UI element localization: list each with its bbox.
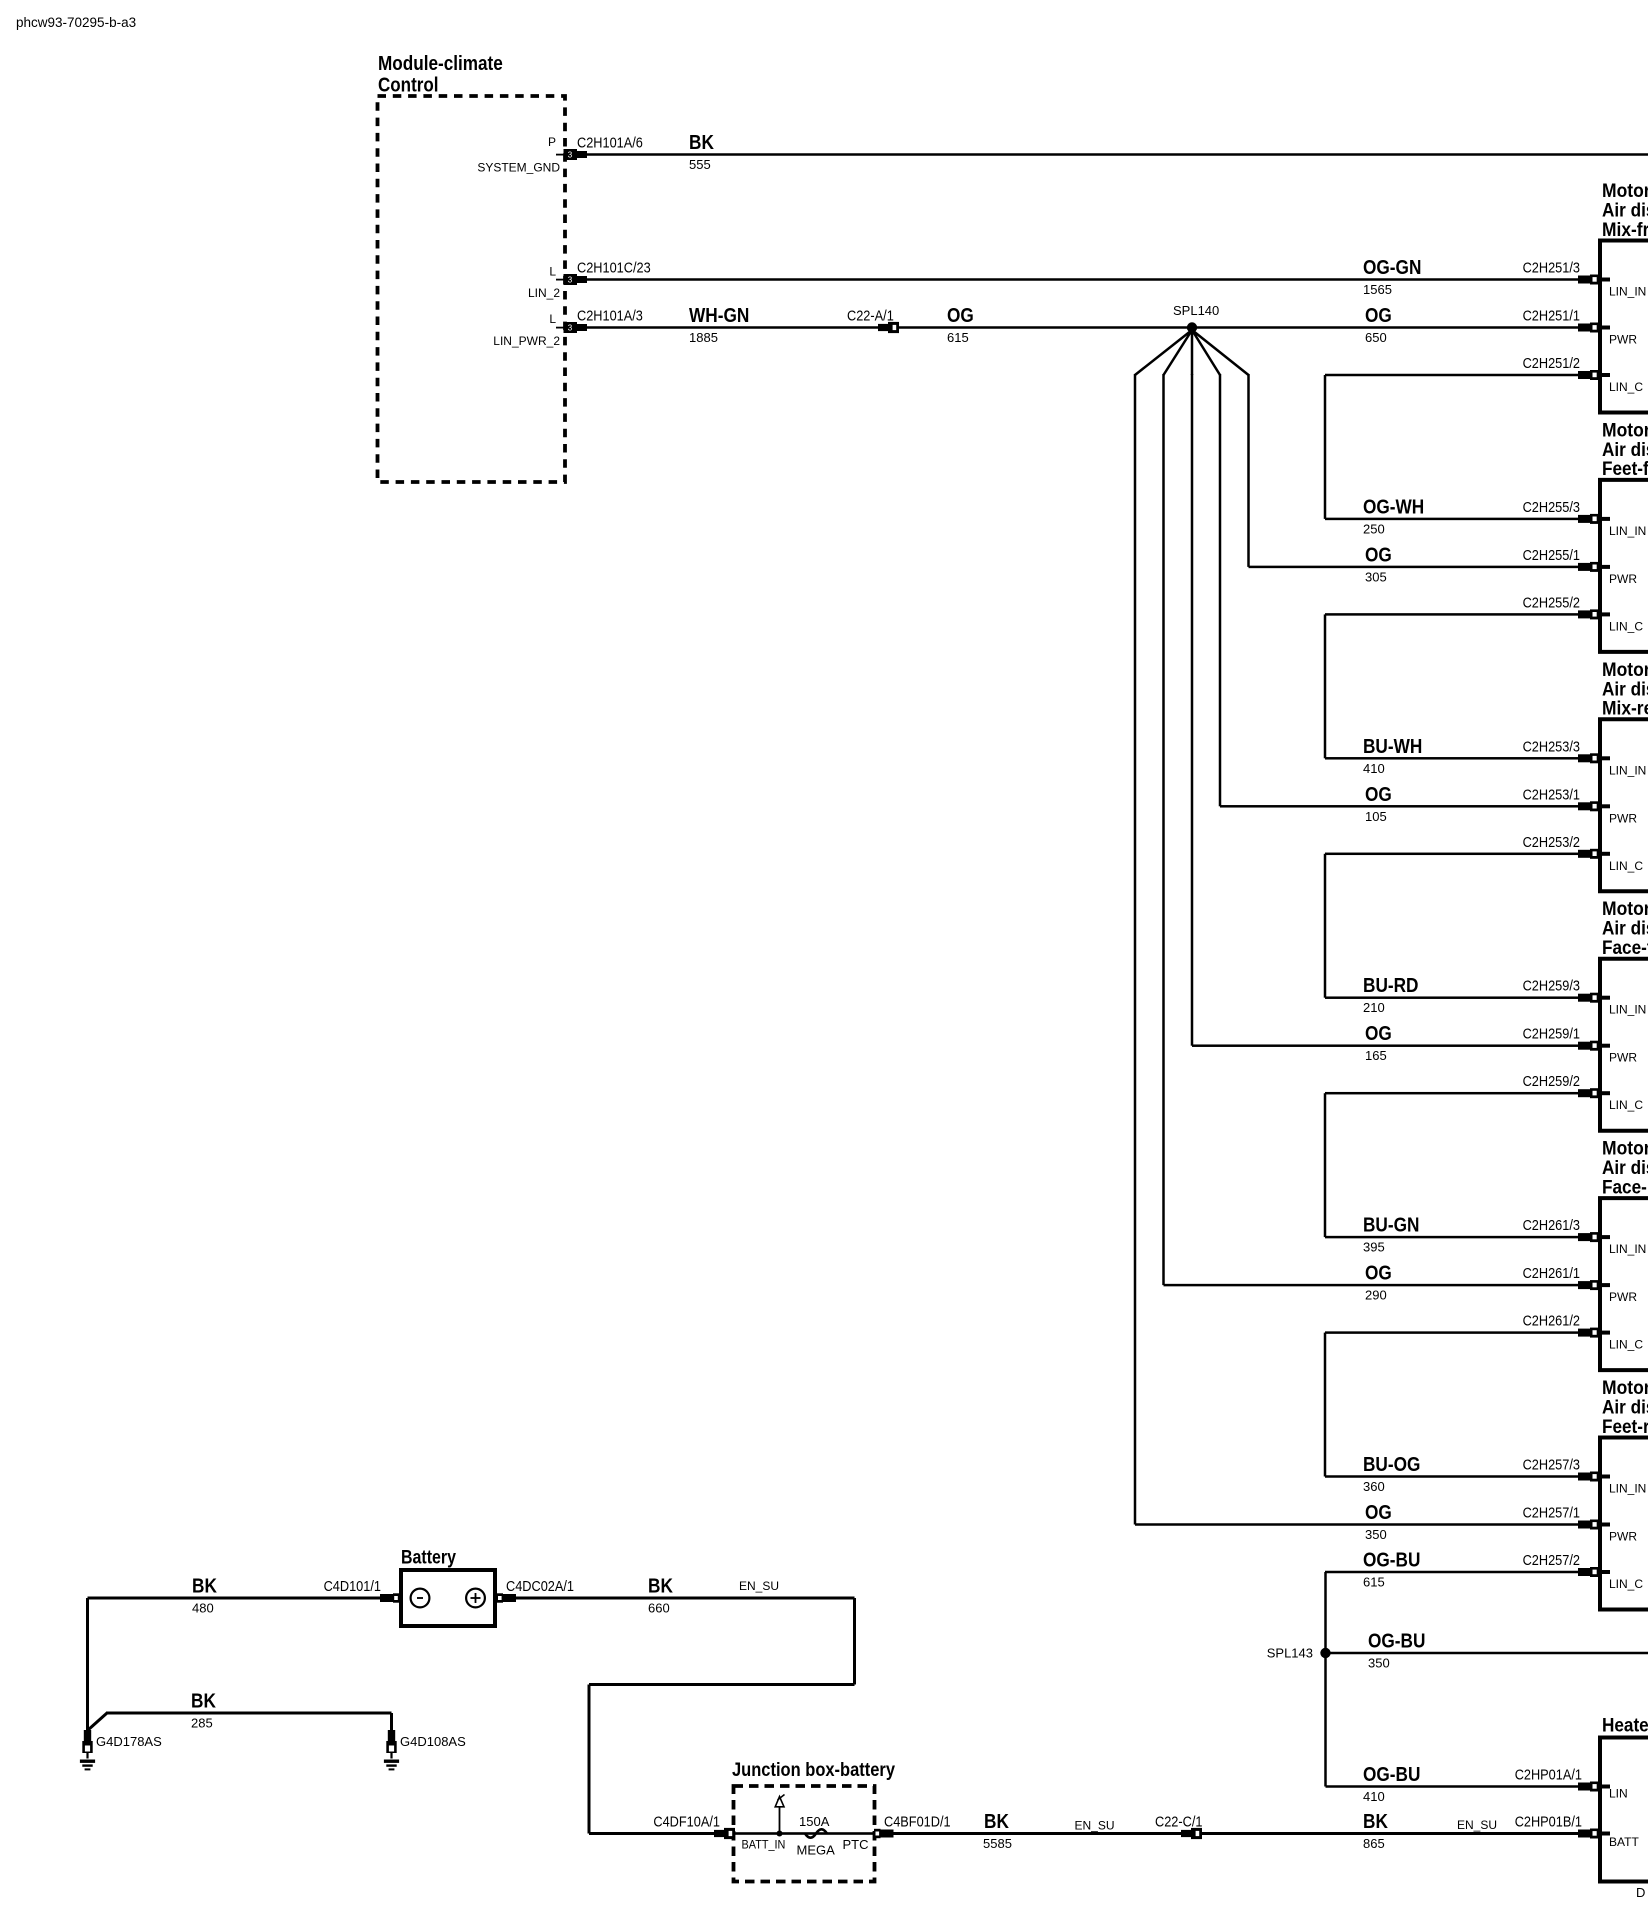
svg-text:LIN_2: LIN_2 — [528, 286, 560, 300]
svg-text:LIN_IN: LIN_IN — [1609, 1003, 1646, 1017]
module-climate-control box — [378, 96, 566, 482]
feed arrow inside junction box — [779, 1807, 781, 1834]
svg-text:BK: BK — [191, 1690, 216, 1713]
wire OG 650 (SPL140 to motor1 PWR) — [1192, 326, 1578, 329]
wire to C2H251/2 LIN_C — [1325, 374, 1578, 377]
wire BK 660 (battery to junction box) — [516, 1597, 855, 1600]
svg-text:LIN_PWR_2: LIN_PWR_2 — [493, 334, 560, 348]
wire OG-BU 350 (SPL143 to right edge) — [1326, 1652, 1648, 1655]
svg-text:Junction box-battery: Junction box-battery — [732, 1759, 895, 1781]
svg-text:PWR: PWR — [1609, 811, 1637, 825]
svg-text:C2H101C/23: C2H101C/23 — [577, 260, 651, 277]
svg-text:C2H257/3: C2H257/3 — [1523, 1457, 1580, 1474]
svg-text:410: 410 — [1363, 761, 1385, 776]
svg-text:C2H253/1: C2H253/1 — [1523, 786, 1580, 803]
motor 1 box — [1600, 241, 1648, 413]
svg-text:LIN_C: LIN_C — [1609, 859, 1643, 873]
pin C2H251/1 PWR — [1578, 324, 1590, 332]
wire BK 5585 (junction box to C22-C/1) — [894, 1832, 1182, 1835]
wire OG vertical from SPL140 to motor5 PWR — [1162, 374, 1165, 1285]
battery box — [401, 1570, 495, 1626]
wire to C2H253/2 LIN_C — [1325, 853, 1578, 856]
svg-text:BK: BK — [1363, 1810, 1388, 1833]
pin C2H261/2 LIN_C — [1578, 1329, 1590, 1337]
svg-text:350: 350 — [1365, 1527, 1387, 1542]
svg-text:OG: OG — [1365, 1262, 1392, 1285]
wire OG 105 to C2H253/1 PWR — [1220, 805, 1578, 808]
wire OG vertical from SPL140 to motor3 PWR — [1219, 374, 1222, 806]
pin C2H261/1 PWR — [1578, 1281, 1590, 1289]
svg-text:OG-GN: OG-GN — [1363, 256, 1421, 279]
wire OG-WH 250 to C2H255/3 LIN_IN — [1325, 518, 1578, 521]
svg-text:Control: Control — [378, 74, 439, 97]
svg-text:C2H101A/3: C2H101A/3 — [577, 308, 643, 325]
svg-text:OG: OG — [947, 304, 974, 327]
pin C2H259/2 LIN_C — [1578, 1089, 1590, 1097]
svg-text:C4BF01D/1: C4BF01D/1 — [884, 1814, 951, 1831]
svg-text:G4D178AS: G4D178AS — [96, 1734, 162, 1749]
svg-text:PWR: PWR — [1609, 572, 1637, 586]
svg-text:C2H251/2: C2H251/2 — [1523, 355, 1580, 372]
pin C2H255/1 PWR — [1578, 563, 1590, 571]
svg-text:PWR: PWR — [1609, 333, 1637, 347]
svg-text:C2H261/1: C2H261/1 — [1523, 1265, 1580, 1282]
motor 2 box — [1600, 480, 1648, 652]
wire OG 290 to C2H261/1 PWR — [1164, 1284, 1579, 1287]
svg-text:Mix-front: Mix-front — [1602, 219, 1648, 241]
svg-text:165: 165 — [1365, 1048, 1387, 1063]
pin C2H253/3 LIN_IN — [1578, 754, 1590, 762]
wire OG-BU 410 (SPL143 to heater C2HP01A/1) — [1326, 1785, 1579, 1788]
svg-text:LIN_C: LIN_C — [1609, 1098, 1643, 1112]
svg-text:C2H253/2: C2H253/2 — [1523, 834, 1580, 851]
svg-text:3: 3 — [568, 151, 573, 160]
svg-text:350: 350 — [1368, 1656, 1390, 1671]
svg-text:C2H251/3: C2H251/3 — [1523, 260, 1580, 277]
svg-text:C4DF10A/1: C4DF10A/1 — [653, 1814, 720, 1831]
svg-text:OG: OG — [1365, 783, 1392, 806]
svg-text:BK: BK — [689, 131, 714, 154]
svg-text:C2HP01A/1: C2HP01A/1 — [1515, 1767, 1582, 1784]
ground G4D178AS — [84, 1730, 91, 1741]
svg-text:OG-BU: OG-BU — [1368, 1630, 1425, 1653]
svg-text:C4DC02A/1: C4DC02A/1 — [506, 1578, 574, 1595]
svg-text:EN_SU: EN_SU — [739, 1579, 779, 1593]
motor 4 box — [1600, 959, 1648, 1131]
pin C2H257/3 LIN_IN — [1578, 1473, 1590, 1481]
wire OG 615 (C22-A/1 to SPL140) — [899, 326, 1192, 329]
svg-text:555: 555 — [689, 157, 711, 172]
wire OG 165 to C2H259/1 PWR — [1192, 1044, 1578, 1047]
svg-text:SYSTEM_GND: SYSTEM_GND — [477, 161, 560, 175]
SPL140 fan diagonals — [1135, 330, 1249, 375]
wire OG 350 to C2H257/1 PWR — [1135, 1523, 1578, 1526]
svg-text:PWR: PWR — [1609, 1051, 1637, 1065]
heater box — [1600, 1738, 1648, 1882]
junction node BATT_IN branch — [777, 1831, 783, 1837]
junction box-battery box — [734, 1786, 875, 1882]
svg-text:OG: OG — [1365, 1501, 1392, 1524]
svg-text:C2H251/1: C2H251/1 — [1523, 308, 1580, 325]
svg-text:C2H257/2: C2H257/2 — [1523, 1552, 1580, 1569]
svg-text:C2H101A/6: C2H101A/6 — [577, 135, 643, 152]
svg-text:BU-RD: BU-RD — [1363, 974, 1419, 997]
svg-text:C2HP01B/1: C2HP01B/1 — [1515, 1814, 1582, 1831]
wire OG-GN 1565 to C2H251/3 LIN_IN — [587, 278, 1578, 281]
svg-text:615: 615 — [947, 330, 969, 345]
motor 3 box — [1600, 719, 1648, 891]
wire motor6 LIN_C down to SPL143 — [1324, 1572, 1327, 1653]
svg-text:LIN_IN: LIN_IN — [1609, 285, 1646, 299]
svg-text:C2H253/3: C2H253/3 — [1523, 738, 1580, 755]
svg-text:305: 305 — [1365, 569, 1387, 584]
svg-text:Module-climate: Module-climate — [378, 52, 503, 75]
wire daisy-chain motor4 LIN_C to motor5 LIN_IN — [1324, 1093, 1327, 1237]
svg-text:360: 360 — [1363, 1479, 1385, 1494]
wire to C2H255/2 LIN_C — [1325, 613, 1578, 616]
svg-text:Heater: Heater — [1602, 1715, 1648, 1737]
svg-text:Feet-front: Feet-front — [1602, 458, 1648, 480]
battery negative terminal — [411, 1589, 430, 1608]
svg-text:OG: OG — [1365, 304, 1392, 327]
svg-text:BATT: BATT — [1609, 1835, 1639, 1849]
svg-text:OG: OG — [1365, 543, 1392, 566]
svg-text:615: 615 — [1363, 1575, 1385, 1590]
wire BATT_IN inside junction box — [735, 1832, 874, 1835]
wire OG vertical from SPL140 to motor6 PWR — [1134, 374, 1137, 1525]
svg-text:OG-WH: OG-WH — [1363, 495, 1424, 518]
svg-text:1885: 1885 — [689, 330, 718, 345]
wire BU-RD 210 to C2H259/3 LIN_IN — [1325, 996, 1578, 999]
svg-text:PWR: PWR — [1609, 1290, 1637, 1304]
wire to C2H257/2 LIN_C — [1325, 1571, 1578, 1574]
wire BU-OG 360 to C2H257/3 LIN_IN — [1325, 1475, 1578, 1478]
pin C2H257/2 LIN_C — [1578, 1568, 1590, 1576]
ground G4D108AS — [388, 1730, 395, 1741]
wire BK 555 (SYSTEM_GND to right edge) — [587, 153, 1648, 156]
svg-text:290: 290 — [1365, 1288, 1387, 1303]
svg-text:C2H257/1: C2H257/1 — [1523, 1505, 1580, 1522]
svg-text:C2H259/1: C2H259/1 — [1523, 1026, 1580, 1043]
svg-text:BK: BK — [192, 1575, 217, 1598]
svg-text:SPL140: SPL140 — [1173, 303, 1219, 318]
svg-text:BK: BK — [984, 1810, 1009, 1833]
svg-text:LIN_C: LIN_C — [1609, 619, 1643, 633]
wire BK 865 (C22-C/1 to heater BATT) — [1202, 1832, 1578, 1835]
pin C2H261/3 LIN_IN — [1578, 1233, 1590, 1241]
pin C2H259/3 LIN_IN — [1578, 994, 1590, 1002]
svg-text:LIN_C: LIN_C — [1609, 380, 1643, 394]
pin C2H251/2 LIN_C — [1578, 371, 1590, 379]
svg-text:C2H259/2: C2H259/2 — [1523, 1073, 1580, 1090]
svg-text:Face-front: Face-front — [1602, 937, 1648, 959]
pin C2H251/3 LIN_IN — [1578, 276, 1590, 284]
svg-text:C22-A/1: C22-A/1 — [847, 308, 894, 325]
svg-text:BATT_IN: BATT_IN — [742, 1838, 786, 1852]
pin C2H257/1 PWR — [1578, 1521, 1590, 1529]
svg-text:SPL143: SPL143 — [1267, 1646, 1313, 1661]
svg-text:phcw93-70295-b-a3: phcw93-70295-b-a3 — [16, 15, 136, 30]
wire BU-WH 410 to C2H253/3 LIN_IN — [1325, 757, 1578, 760]
svg-text:LIN_C: LIN_C — [1609, 1577, 1643, 1591]
svg-text:285: 285 — [191, 1716, 213, 1731]
svg-text:BU-OG: BU-OG — [1363, 1453, 1420, 1476]
svg-text:250: 250 — [1363, 521, 1385, 536]
svg-text:G4D108AS: G4D108AS — [400, 1734, 466, 1749]
svg-text:PWR: PWR — [1609, 1530, 1637, 1544]
svg-text:L: L — [549, 265, 556, 279]
svg-text:C4D101/1: C4D101/1 — [324, 1578, 381, 1595]
svg-text:LIN: LIN — [1609, 1787, 1628, 1801]
svg-text:410: 410 — [1363, 1789, 1385, 1804]
svg-text:C2H261/3: C2H261/3 — [1523, 1217, 1580, 1234]
svg-text:Battery: Battery — [401, 1548, 456, 1569]
svg-text:5585: 5585 — [983, 1836, 1012, 1851]
wire OG 305 to C2H255/1 PWR — [1249, 566, 1579, 569]
svg-text:BU-WH: BU-WH — [1363, 735, 1422, 758]
wire daisy-chain motor2 LIN_C to motor3 LIN_IN — [1324, 614, 1327, 758]
svg-text:1565: 1565 — [1363, 282, 1392, 297]
wire OG vertical from SPL140 to motor2 PWR — [1247, 374, 1250, 567]
svg-text:650: 650 — [1365, 330, 1387, 345]
svg-text:480: 480 — [192, 1601, 214, 1616]
motor 6 box — [1600, 1438, 1648, 1610]
wire daisy-chain motor1 LIN_C to motor2 LIN_IN — [1324, 375, 1327, 519]
svg-text:865: 865 — [1363, 1836, 1385, 1851]
svg-text:EN_SU: EN_SU — [1075, 1819, 1115, 1833]
wire to C2H259/2 LIN_C — [1325, 1092, 1578, 1095]
svg-text:C2H261/2: C2H261/2 — [1523, 1313, 1580, 1330]
wire OG vertical from SPL140 to motor4 PWR — [1191, 374, 1194, 1046]
svg-text:OG-BU: OG-BU — [1363, 1763, 1420, 1786]
pin C2H255/2 LIN_C — [1578, 610, 1590, 618]
svg-text:C2H259/3: C2H259/3 — [1523, 978, 1580, 995]
svg-text:LIN_IN: LIN_IN — [1609, 524, 1646, 538]
wire daisy-chain motor5 LIN_C to motor6 LIN_IN — [1324, 1333, 1327, 1477]
svg-text:Face-rear: Face-rear — [1602, 1176, 1648, 1198]
svg-text:LIN_IN: LIN_IN — [1609, 1482, 1646, 1496]
pin C2H259/1 PWR — [1578, 1042, 1590, 1050]
wire BU-GN 395 to C2H261/3 LIN_IN — [1325, 1236, 1578, 1239]
svg-text:395: 395 — [1363, 1240, 1385, 1255]
svg-text:105: 105 — [1365, 809, 1387, 824]
svg-text:PTC: PTC — [843, 1837, 869, 1852]
svg-text:LIN_IN: LIN_IN — [1609, 1242, 1646, 1256]
wire BK 480 (battery to ground G4D178AS) — [88, 1597, 381, 1600]
svg-text:LIN_IN: LIN_IN — [1609, 763, 1646, 777]
svg-text:660: 660 — [648, 1601, 670, 1616]
svg-text:Mix-rear: Mix-rear — [1602, 698, 1648, 720]
svg-text:OG-BU: OG-BU — [1363, 1549, 1420, 1572]
svg-text:EN_SU: EN_SU — [1457, 1818, 1497, 1832]
svg-text:3: 3 — [568, 324, 573, 333]
pin C2H253/1 PWR — [1578, 802, 1590, 810]
svg-text:OG: OG — [1365, 1022, 1392, 1045]
svg-text:BK: BK — [648, 1575, 673, 1598]
svg-text:3: 3 — [568, 276, 573, 285]
pin C2H253/2 LIN_C — [1578, 850, 1590, 858]
wire daisy-chain motor3 LIN_C to motor4 LIN_IN — [1324, 854, 1327, 998]
svg-text:D: D — [1636, 1885, 1645, 1900]
motor 5 box — [1600, 1198, 1648, 1370]
wire BK 285 (to ground G4D108AS) — [106, 1712, 392, 1715]
svg-text:L: L — [549, 312, 556, 326]
svg-text:MEGA: MEGA — [797, 1843, 836, 1858]
wire SPL143 down to heater LIN — [1324, 1653, 1327, 1787]
svg-text:C2H255/2: C2H255/2 — [1523, 594, 1580, 611]
svg-text:210: 210 — [1363, 1000, 1385, 1015]
svg-text:C2H255/3: C2H255/3 — [1523, 499, 1580, 516]
svg-text:C2H255/1: C2H255/1 — [1523, 547, 1580, 564]
svg-text:BU-GN: BU-GN — [1363, 1214, 1419, 1237]
wire to C2H261/2 LIN_C — [1325, 1331, 1578, 1334]
svg-text:P: P — [548, 135, 556, 149]
svg-text:LIN_C: LIN_C — [1609, 1338, 1643, 1352]
battery positive terminal — [466, 1589, 485, 1608]
pin C2H255/3 LIN_IN — [1578, 515, 1590, 523]
svg-text:Feet-rear: Feet-rear — [1602, 1416, 1648, 1438]
wire WH-GN 1885 (LIN_PWR_2 to C22-A/1) — [587, 326, 878, 329]
svg-text:WH-GN: WH-GN — [689, 304, 749, 327]
svg-text:150A: 150A — [799, 1814, 830, 1829]
